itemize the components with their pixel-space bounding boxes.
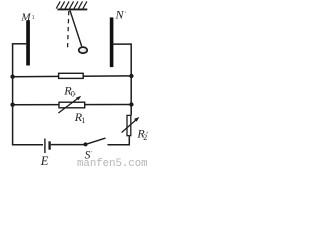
battery E long plate (44, 139, 46, 154)
wire: right plate to right rail (113, 43, 131, 45)
wire: top rail (12, 75, 132, 78)
svg-text:1: 1 (32, 15, 35, 21)
switch S lever (86, 138, 106, 144)
svg-text:2: 2 (143, 133, 147, 142)
node dot top-left (10, 75, 14, 79)
node dot mid-right (129, 102, 133, 106)
battery E short plate (48, 141, 50, 149)
wire: rheostat R2 bottom to bottom rail (128, 136, 130, 145)
switch S pivot dot (84, 142, 88, 146)
plate M (left) (26, 20, 30, 65)
rheostat R1 (59, 102, 85, 108)
svg-text:E: E (40, 154, 49, 166)
wire: left plate to left rail (12, 43, 26, 45)
svg-text:M: M (20, 12, 31, 24)
svg-text:N: N (115, 8, 125, 22)
pendulum string (deflected) (70, 10, 82, 46)
node dot top-right (129, 74, 133, 78)
svg-text:′: ′ (91, 151, 93, 157)
wire: middle rail (12, 104, 132, 106)
rheostat R1 arrow (58, 98, 78, 113)
charged ball (79, 47, 88, 53)
ceiling mount hatching (56, 1, 87, 8)
pendulum rest position (dashed) (68, 11, 69, 49)
wire: battery to switch (51, 144, 86, 146)
wire: switch to bottom-right corner (108, 144, 131, 146)
svg-text:manfen5.com: manfen5.com (77, 158, 148, 166)
wire: left rail vertical (12, 44, 14, 145)
svg-text:1: 1 (81, 116, 85, 125)
rheostat R2 arrow (122, 119, 137, 132)
rheostat R2 (127, 115, 131, 135)
ceiling bar (57, 8, 87, 10)
plate N (right) (110, 17, 114, 67)
svg-text:′: ′ (125, 11, 127, 18)
stray mark after R0 (74, 94, 76, 95)
resistor R0 (59, 73, 84, 78)
node dot mid-left (10, 103, 14, 107)
stray mark after R2 (146, 132, 148, 134)
wire: right rail vertical (130, 43, 132, 115)
wire: bottom rail left section (12, 144, 43, 146)
